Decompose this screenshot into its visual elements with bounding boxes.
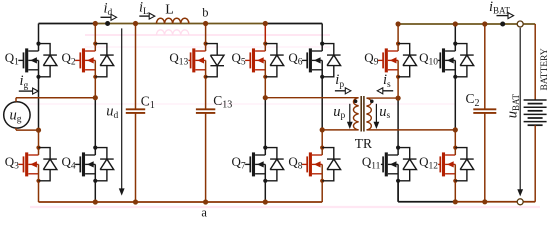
wire top rail left segment (Q1 drain to Q2 drain) (39, 24, 96, 44)
svg-text:BATTERY: BATTERY (540, 48, 550, 90)
voltage arrow ud (106, 28, 124, 195)
transistor Q9 (364, 42, 416, 79)
wire bottom rail left/middle (node a) (39, 201, 323, 203)
transformer TR primary winding (265, 98, 358, 130)
voltage source ug (4, 102, 30, 128)
transistor Q13 (169, 42, 224, 79)
current label is (377, 72, 393, 94)
wire Q3 source to bottom rail (38, 181, 40, 202)
capacitor C13 (196, 77, 232, 202)
wire leg Q6-Q8 midpoint (321, 77, 323, 148)
wire top rail to Q6 drain (265, 24, 322, 44)
wire Q12 source to bottom rail (454, 181, 456, 202)
wire ug positive lead (16, 98, 95, 102)
battery cell symbol (524, 24, 547, 202)
junction secondary top lead (396, 96, 401, 101)
voltage arrow us (374, 104, 391, 129)
junction bottom rail at Q4 (93, 199, 98, 204)
junction ug lead to leg Q1-Q3 (36, 128, 41, 133)
voltage arrow uBAT with terminals (504, 21, 523, 205)
wire Q9 drain (397, 24, 399, 44)
current label iBAT with measurement dot (489, 0, 514, 27)
wire bottom rail right brown segment (455, 201, 535, 203)
junction secondary bottom lead (453, 127, 458, 132)
capacitor C1 (126, 24, 155, 203)
junction bottom rail at Q7 (263, 199, 268, 204)
svg-text:L: L (165, 3, 174, 18)
junction top rail at Q9 corner (396, 21, 401, 26)
junction top rail at Q5 (263, 21, 268, 26)
junction primary top lead (263, 95, 268, 100)
current label ip (335, 72, 351, 94)
wire Q4 source to bottom rail (94, 181, 96, 202)
wire leg Q9-Q11 midpoint (397, 77, 399, 148)
junction bottom rail at C1 (133, 199, 138, 204)
svg-text:TR: TR (355, 136, 372, 151)
transformer TR secondary winding (367, 98, 456, 130)
junction primary bottom lead (320, 127, 325, 132)
junction top rail at C2 (482, 21, 487, 26)
transistor Q1 (5, 42, 57, 79)
wire Q2 drain (94, 24, 96, 44)
transistor Q5 (232, 42, 284, 79)
wire leg Q1-Q3 midpoint (38, 77, 40, 148)
inductor L (156, 3, 188, 24)
transistor Q2 (62, 42, 114, 79)
wire top rail middle segment (95, 23, 265, 25)
transistor Q12 (419, 146, 474, 183)
svg-text:a: a (201, 206, 207, 220)
wire top rail right segment (398, 23, 535, 25)
wire leg Q2-Q4 midpoint (94, 77, 96, 148)
wire ug negative lead (16, 128, 39, 130)
transistor Q4 (62, 146, 114, 183)
voltage arrow up (333, 104, 353, 129)
wire Q10 drain (454, 24, 456, 44)
transistor Q3 (5, 146, 57, 183)
transformer TR core (361, 96, 364, 132)
current label ig (19, 73, 38, 94)
transistor Q6 (288, 42, 340, 79)
current label iL (139, 0, 155, 19)
capacitor C2 (466, 24, 497, 202)
junction top rail at C1 (133, 21, 138, 26)
transistor Q10 (419, 42, 474, 79)
wire leg Q5-Q7 midpoint (264, 77, 266, 148)
junction bottom rail at C13 (203, 199, 208, 204)
wire leg Q10-Q12 midpoint (454, 77, 456, 148)
wire Q5 drain (264, 24, 266, 44)
junction ug lead to leg Q2-Q4 (93, 95, 98, 100)
junction top rail at Q10 (453, 21, 458, 26)
junction bottom rail at C2 (482, 199, 487, 204)
svg-text:b: b (202, 5, 208, 19)
transistor Q11 (362, 146, 417, 183)
wire bottom rail right black segment (398, 181, 455, 202)
junction node b (203, 21, 208, 26)
junction top rail at Q2 (93, 21, 98, 26)
current label id with measurement dot (101, 1, 117, 26)
wire Q8 source to bottom rail (321, 181, 323, 202)
wire Q7 source to bottom rail (264, 181, 266, 202)
transistor Q8 (288, 146, 340, 183)
transistor Q7 (232, 146, 284, 183)
junction bottom rail at Q12 (453, 199, 458, 204)
wire node b to Q13 drain (205, 24, 207, 44)
